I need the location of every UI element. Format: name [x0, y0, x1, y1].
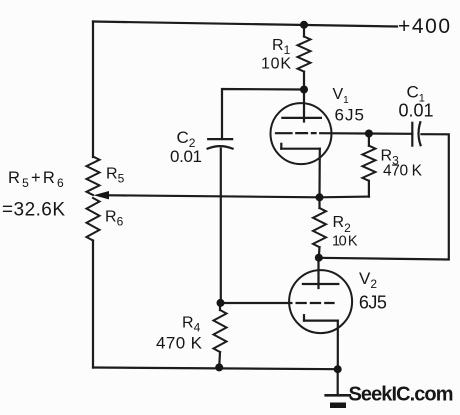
svg-text:R1: R1 [272, 37, 291, 57]
tube V1 envelope [271, 103, 332, 164]
svg-text:470 K: 470 K [383, 162, 423, 179]
node A dot [316, 193, 324, 201]
svg-text:V1: V1 [333, 86, 350, 106]
svg-text:SeekIC.com: SeekIC.com [349, 384, 454, 406]
node dot R4 bottom [215, 363, 223, 371]
tube V2 envelope [289, 270, 352, 333]
wire left vertical lower [92, 241, 94, 368]
ground bar1 [326, 394, 350, 397]
resistor R2 [318, 197, 320, 208]
svg-text:470 K: 470 K [156, 333, 203, 352]
resistor R1 [303, 25, 305, 37]
svg-text:R2: R2 [333, 214, 352, 235]
svg-text:+400: +400 [398, 15, 451, 38]
resistor R4 [219, 303, 221, 310]
resistor R3 [368, 181, 370, 197]
wire bottom rail [93, 368, 338, 370]
svg-text:0.01: 0.01 [399, 101, 434, 121]
ground lead [337, 369, 339, 394]
resistor R5 [87, 157, 100, 196]
svg-text:0.01: 0.01 [170, 147, 202, 166]
svg-text:R5+R6: R5+R6 [8, 169, 66, 190]
tube V2 grid dashes [297, 302, 334, 304]
svg-text:6J5: 6J5 [359, 292, 387, 312]
wire left vertical upper [92, 22, 94, 158]
svg-text:=32.6K: =32.6K [2, 200, 65, 221]
svg-text:10 K: 10 K [332, 233, 358, 249]
node dot V1 plate [300, 86, 308, 94]
node B dot [315, 254, 323, 262]
wire tap R5R6 to node A to R3 [100, 195, 369, 197]
wire plate node to C2 [222, 89, 304, 139]
node dot V2 grid [217, 299, 225, 307]
tube V2 plate [317, 258, 319, 288]
node dot V1 grid [365, 130, 373, 138]
arrow tap R5+R6 [94, 191, 110, 199]
tube V1 plate [303, 90, 305, 122]
svg-text:10K: 10K [261, 55, 291, 72]
tube V1 cathode [280, 144, 282, 149]
svg-text:6J5: 6J5 [335, 106, 365, 125]
capacitor C1 [411, 123, 413, 146]
svg-text:R5: R5 [106, 166, 125, 186]
wire top rail +400 [93, 22, 397, 27]
tube V1 grid dashes [276, 132, 316, 134]
wire V2 grid [221, 302, 292, 304]
resistor R6 [87, 198, 100, 241]
svg-text:V2: V2 [359, 269, 377, 291]
capacitor C2 [208, 138, 232, 140]
node dot top rail [300, 21, 308, 29]
ground bar2 [330, 403, 346, 409]
svg-text:R6: R6 [105, 209, 124, 229]
svg-text:R4: R4 [182, 315, 201, 335]
tube V2 cathode [303, 315, 305, 320]
wire C2 to V2 grid node [220, 149, 222, 303]
node dot ground [334, 365, 342, 373]
wire node B to right edge up to C1 [319, 134, 449, 259]
